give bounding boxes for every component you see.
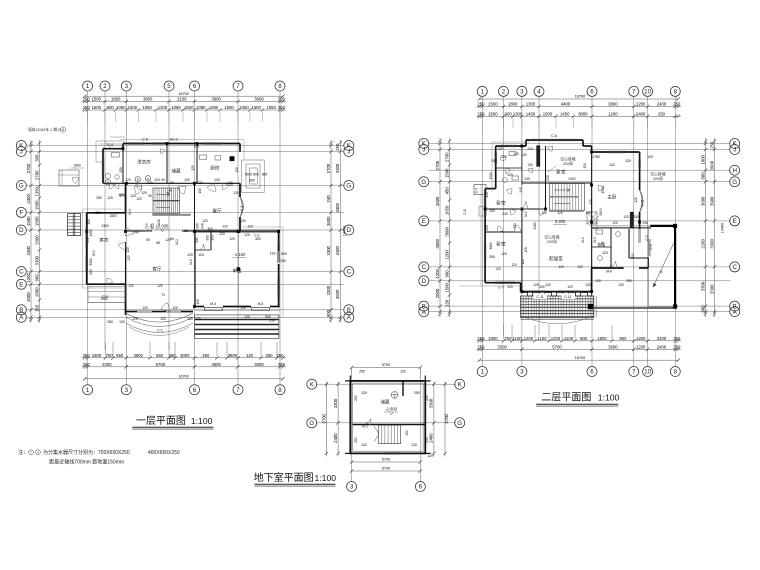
svg-text:120: 120 xyxy=(202,219,208,223)
axis circle B left (plan2) xyxy=(419,301,429,311)
svg-text:120: 120 xyxy=(191,165,195,171)
svg-text:120: 120 xyxy=(541,211,547,215)
svg-text:1780: 1780 xyxy=(592,155,600,159)
axis circle 10 top (plan2) xyxy=(643,86,653,96)
svg-text:C-9: C-9 xyxy=(645,235,649,240)
svg-text:-1.150: -1.150 xyxy=(233,252,246,257)
svg-text:250: 250 xyxy=(96,196,102,200)
interior wall laundry/storage (plan1) xyxy=(103,144,240,184)
svg-text:4400: 4400 xyxy=(561,102,571,107)
svg-text:250: 250 xyxy=(95,211,101,215)
small dim texts scatter (plan2) xyxy=(463,147,653,287)
axis circle 3 top (plan1) xyxy=(121,81,131,91)
dimension chain left inner (plan2) xyxy=(444,138,451,317)
svg-text:3600: 3600 xyxy=(435,196,440,206)
svg-text:120: 120 xyxy=(127,255,131,261)
svg-text:2: 2 xyxy=(502,89,506,96)
svg-text:3300: 3300 xyxy=(102,362,112,367)
room label master bedroom (plan2) xyxy=(607,194,617,201)
svg-text:240: 240 xyxy=(133,231,139,235)
svg-text:3600: 3600 xyxy=(444,227,449,237)
svg-text:120: 120 xyxy=(612,221,618,225)
svg-text:250: 250 xyxy=(269,319,275,323)
svg-text:1500: 1500 xyxy=(184,105,194,110)
svg-text:250: 250 xyxy=(168,353,176,358)
svg-text:1500: 1500 xyxy=(488,111,498,116)
svg-text:120: 120 xyxy=(126,247,130,253)
svg-text:4: 4 xyxy=(537,89,541,96)
svg-text:C-1: C-1 xyxy=(157,329,163,333)
svg-text:1500: 1500 xyxy=(92,105,102,110)
outer wall top band (plan1) xyxy=(103,144,240,184)
axis grid horizontal lines - first floor plan xyxy=(26,146,344,318)
dimension chain top row2 (plan2) xyxy=(476,111,681,118)
svg-text:2000: 2000 xyxy=(26,292,31,302)
garage south wall (plan1) xyxy=(196,306,280,308)
dimension chain bottom row2 (plan1) xyxy=(82,362,286,369)
axis circle K left (plan1) xyxy=(16,141,26,151)
svg-text:D: D xyxy=(422,278,427,285)
svg-text:120: 120 xyxy=(511,263,517,267)
axis circle 8 bottom (plan1) xyxy=(275,385,285,395)
extension ticks below top chain (plan2) xyxy=(482,118,675,128)
stairs (basement) xyxy=(374,425,401,444)
svg-text:240: 240 xyxy=(201,223,205,229)
axis circle C left (plan1) xyxy=(16,267,26,277)
svg-text:7: 7 xyxy=(632,369,636,376)
svg-text:3300: 3300 xyxy=(89,258,93,265)
svg-text:250: 250 xyxy=(631,253,635,259)
dimension 5700 bottom row1 (basement) xyxy=(350,458,422,464)
svg-text:120: 120 xyxy=(567,285,573,289)
svg-text:7: 7 xyxy=(236,83,240,90)
dimension chain top row1 (plan2) xyxy=(476,102,681,109)
svg-text:400X650X250: 400X650X250 xyxy=(148,450,180,456)
svg-text:1050: 1050 xyxy=(142,105,152,110)
fan-coil unit with cross (plan2) xyxy=(587,212,597,224)
axis circle E left (plan1) xyxy=(16,279,26,289)
svg-text:250: 250 xyxy=(202,353,210,358)
svg-text:120: 120 xyxy=(119,320,125,324)
svg-text:-2.600: -2.600 xyxy=(385,407,398,412)
svg-text:1500: 1500 xyxy=(444,283,449,293)
outer wall right block (plan2) xyxy=(592,146,640,229)
svg-text:空心砖墙: 空心砖墙 xyxy=(544,235,559,240)
washroom fixtures (plan1) xyxy=(105,153,119,180)
svg-text:130: 130 xyxy=(521,153,527,157)
svg-text:250: 250 xyxy=(477,102,485,107)
axis circle K left (plan2) xyxy=(419,139,429,149)
svg-text:120: 120 xyxy=(589,199,593,205)
dimension chain left outer (basement) xyxy=(321,381,328,456)
wall x=629 closet (plan2) xyxy=(629,229,648,258)
door leaf M-4 garage (plan1) xyxy=(205,302,270,310)
dimension chain right inner (plan1) xyxy=(326,140,333,323)
svg-text:14400: 14400 xyxy=(721,223,725,234)
svg-text:G: G xyxy=(346,183,351,190)
axis circle 7 top (plan1) xyxy=(233,81,243,91)
svg-text:G: G xyxy=(732,179,737,186)
svg-text:1200: 1200 xyxy=(636,102,646,107)
svg-text:C: C xyxy=(732,264,737,271)
svg-text:120: 120 xyxy=(361,391,367,395)
svg-text:1800: 1800 xyxy=(92,353,102,358)
hollow brick note right (plan2) xyxy=(650,172,665,182)
window washroom west wall (plan1) xyxy=(102,158,104,175)
svg-text:16700: 16700 xyxy=(575,95,586,99)
window west wall guest room (plan1) xyxy=(86,226,88,272)
axis circle 2 top (plan2) xyxy=(499,86,509,96)
axis circle B right (plan1) xyxy=(344,305,354,315)
svg-text:120: 120 xyxy=(235,167,239,173)
svg-text:C-4: C-4 xyxy=(475,188,479,193)
entrance porch arc C-1 (plan1) xyxy=(126,313,194,336)
axis circle G right (plan1) xyxy=(344,181,354,191)
axis circle B left (plan1) xyxy=(16,305,26,315)
svg-text:120: 120 xyxy=(147,181,153,185)
terrace top-left roof lines (plan1) xyxy=(96,137,125,162)
axis circle 8 top (plan1) xyxy=(275,81,285,91)
axis circle G left (plan1) xyxy=(16,181,26,191)
axis circle A right (plan2) xyxy=(730,307,740,317)
svg-text:3800: 3800 xyxy=(133,353,143,358)
svg-text:5700: 5700 xyxy=(321,413,326,423)
svg-text:3300: 3300 xyxy=(326,245,331,255)
svg-text:6: 6 xyxy=(419,484,423,491)
svg-text:H: H xyxy=(732,167,736,174)
svg-text:120: 120 xyxy=(533,283,539,287)
svg-text:250: 250 xyxy=(359,370,365,374)
svg-text:120: 120 xyxy=(495,267,501,271)
svg-text:1: 1 xyxy=(86,387,90,394)
axis circle C right (plan2) xyxy=(730,262,740,272)
svg-text:地下室平面图: 地下室平面图 xyxy=(254,471,314,484)
extension ticks below top chain (plan1) xyxy=(88,112,280,122)
outer wall bottom living (plan1) xyxy=(126,311,194,313)
window C-9 east (plan2) xyxy=(648,239,652,256)
svg-text:2900: 2900 xyxy=(599,208,603,216)
door arcs (plan2) xyxy=(505,168,604,247)
svg-text:150: 150 xyxy=(87,219,91,225)
svg-text:120: 120 xyxy=(545,283,551,287)
svg-text:1650: 1650 xyxy=(444,205,449,215)
total dimension 16700 top (plan1) xyxy=(83,92,285,98)
axis circle A right (plan1) xyxy=(344,312,354,322)
title first floor plan xyxy=(132,415,213,429)
svg-text:150: 150 xyxy=(211,235,215,241)
svg-text:900: 900 xyxy=(505,111,513,116)
svg-text:车库: 车库 xyxy=(232,268,242,275)
svg-text:卧室: 卧室 xyxy=(496,200,506,207)
svg-text:250: 250 xyxy=(642,221,648,225)
axis circle C right (plan1) xyxy=(344,267,354,277)
axis circle 7 top (plan2) xyxy=(629,86,639,96)
axis circle K right (plan2) xyxy=(730,139,740,149)
terrace thick outline right (plan2) xyxy=(592,224,677,308)
svg-text:120: 120 xyxy=(427,454,433,458)
svg-text:3600: 3600 xyxy=(608,344,618,349)
svg-text:1450: 1450 xyxy=(526,111,536,116)
svg-text:120: 120 xyxy=(602,251,608,255)
axis circle 6 bottom (plan2) xyxy=(587,367,597,377)
svg-text:3600: 3600 xyxy=(211,97,221,102)
svg-text:900: 900 xyxy=(326,309,331,317)
svg-text:900: 900 xyxy=(580,336,588,341)
axis circle 1 top (plan1) xyxy=(83,81,93,91)
axis grid lines (basement) xyxy=(316,368,456,482)
total dimension 14400 right (plan2) xyxy=(721,223,725,234)
svg-text:250: 250 xyxy=(354,437,358,443)
outer wall bottom balcony (plan2) xyxy=(521,291,592,293)
extra small dim texts (plan2) xyxy=(485,147,639,289)
svg-text:120: 120 xyxy=(244,233,250,237)
svg-text:M-2: M-2 xyxy=(524,211,528,217)
svg-text:2000: 2000 xyxy=(34,287,39,297)
svg-text:M-2: M-2 xyxy=(128,209,132,215)
svg-text:2: 2 xyxy=(103,83,107,90)
svg-text:800: 800 xyxy=(700,172,705,180)
svg-text:130: 130 xyxy=(527,163,533,167)
room label bedroom upper (plan2) xyxy=(556,169,566,176)
dimension chain right outer (basement) xyxy=(443,381,449,456)
svg-text:洗衣房: 洗衣房 xyxy=(137,159,151,166)
bath fixtures upper-left (plan2) xyxy=(500,152,620,261)
svg-text:F: F xyxy=(19,210,23,217)
svg-text:500: 500 xyxy=(249,179,255,183)
svg-text:1500: 1500 xyxy=(601,186,605,193)
axis circle E right (plan2) xyxy=(730,216,740,226)
bay window C-11 right (plan2) xyxy=(640,190,645,212)
svg-text:250: 250 xyxy=(83,97,91,102)
svg-text:90: 90 xyxy=(170,237,174,241)
axis circle 1 bottom (plan2) xyxy=(477,367,487,377)
stairs (plan2) xyxy=(549,184,584,211)
svg-text:90: 90 xyxy=(146,238,150,242)
dimension chain top row1 (plan1) xyxy=(82,97,286,104)
svg-text:120: 120 xyxy=(187,317,193,321)
svg-text:J: J xyxy=(20,149,23,156)
svg-text:E: E xyxy=(733,218,737,225)
small dimension texts scatter (plan1) xyxy=(70,164,275,325)
axis circle 1 bottom (plan1) xyxy=(83,385,93,395)
svg-text:M-3: M-3 xyxy=(593,237,597,243)
svg-text:250: 250 xyxy=(425,437,429,443)
svg-text:6: 6 xyxy=(590,89,594,96)
outer wall left main (plan2) xyxy=(484,189,486,283)
svg-text:3: 3 xyxy=(350,484,354,491)
svg-text:250: 250 xyxy=(626,279,632,283)
windows (plan2) xyxy=(484,134,640,292)
svg-text:5700: 5700 xyxy=(552,344,562,349)
svg-text:J: J xyxy=(422,147,425,154)
svg-text:240: 240 xyxy=(195,237,199,243)
svg-text:G: G xyxy=(19,183,24,190)
svg-text:1:100: 1:100 xyxy=(598,393,620,403)
svg-text:2700: 2700 xyxy=(34,170,39,180)
axis grid vertical lines - first floor plan xyxy=(88,91,280,385)
axis circle 4 top (plan2) xyxy=(534,86,544,96)
axis circle K right (basement) xyxy=(455,379,465,389)
corner wing stubs (basement) xyxy=(345,376,431,454)
axis circle 2 top (plan1) xyxy=(100,81,110,91)
svg-text:2400: 2400 xyxy=(568,177,575,181)
svg-text:C: C xyxy=(347,269,352,276)
svg-text:1450: 1450 xyxy=(560,111,570,116)
axis circle D left (plan2) xyxy=(419,276,429,286)
dimension chain right inner (basement) xyxy=(429,381,436,456)
svg-text:900: 900 xyxy=(196,223,200,229)
column blobs at axis-wall junctions (plan1) xyxy=(85,142,280,308)
svg-text:M-2: M-2 xyxy=(581,237,585,243)
svg-text:120: 120 xyxy=(196,299,200,305)
svg-text:J: J xyxy=(733,147,736,154)
svg-text:240: 240 xyxy=(502,212,508,216)
svg-text:120: 120 xyxy=(107,196,113,200)
axis circle 8 bottom (plan2) xyxy=(670,367,680,377)
garage centre line and column (plan1) xyxy=(237,230,240,306)
svg-text:120: 120 xyxy=(195,317,201,321)
axis circle J left (plan2) xyxy=(419,145,429,155)
svg-text:3300: 3300 xyxy=(34,255,39,265)
extension ticks above bottom chain (plan1) xyxy=(106,342,278,356)
svg-text:240: 240 xyxy=(524,177,530,181)
svg-text:120: 120 xyxy=(160,317,166,321)
svg-text:120: 120 xyxy=(118,193,124,197)
svg-text:250: 250 xyxy=(477,344,485,349)
svg-text:B: B xyxy=(19,307,23,314)
entrance steps right - garage apron (plan1) xyxy=(195,315,279,339)
svg-text:C-2: C-2 xyxy=(86,237,90,242)
axis grid vertical lines (plan2) xyxy=(482,97,675,367)
svg-text:储藏: 储藏 xyxy=(171,168,181,175)
svg-text:C-4: C-4 xyxy=(102,295,108,299)
svg-text:750: 750 xyxy=(106,353,114,358)
svg-text:1050: 1050 xyxy=(116,105,126,110)
dimension chain right outer (plan2) xyxy=(709,138,716,317)
dimension 5700 top (basement) xyxy=(350,363,422,378)
extra small dim texts (plan1) xyxy=(87,178,239,288)
svg-text:1300: 1300 xyxy=(526,102,536,107)
dimension chain bottom row1 (plan1) xyxy=(82,353,286,360)
svg-text:900: 900 xyxy=(34,274,39,282)
svg-text:120: 120 xyxy=(187,253,193,257)
svg-text:C-7: C-7 xyxy=(498,286,504,290)
svg-text:120: 120 xyxy=(270,251,276,255)
flue dark block (plan2) xyxy=(537,146,634,229)
svg-text:250: 250 xyxy=(673,336,681,341)
svg-text:550: 550 xyxy=(156,353,164,358)
level mark 3.300 (plan2) xyxy=(553,219,567,225)
svg-text:10: 10 xyxy=(644,369,651,376)
svg-text:150: 150 xyxy=(34,304,39,312)
svg-text:240: 240 xyxy=(519,187,523,193)
svg-text:2700: 2700 xyxy=(444,152,449,162)
svg-text:1800: 1800 xyxy=(508,102,518,107)
svg-text:1100: 1100 xyxy=(537,336,547,341)
axis circle A left (plan2) xyxy=(419,307,429,317)
svg-text:1: 1 xyxy=(86,83,90,90)
svg-text:5700: 5700 xyxy=(444,413,449,423)
svg-text:C: C xyxy=(19,269,24,276)
svg-text:二: 二 xyxy=(393,392,396,395)
svg-text:120: 120 xyxy=(198,253,204,257)
dimension chain bottom row1 (plan2) xyxy=(476,336,681,343)
svg-text:120: 120 xyxy=(219,232,225,236)
svg-text:250: 250 xyxy=(673,344,681,349)
room label dining (plan1) xyxy=(212,208,222,215)
annex C-4 left (plan2) xyxy=(474,185,486,217)
svg-text:T4: T4 xyxy=(161,293,165,297)
svg-text:1300: 1300 xyxy=(513,111,523,116)
svg-text:M-2: M-2 xyxy=(175,239,179,245)
svg-text:注：: 注： xyxy=(18,449,28,456)
svg-text:250: 250 xyxy=(265,353,273,358)
svg-text:1300: 1300 xyxy=(101,224,109,228)
axis circle B right (plan2) xyxy=(730,301,740,311)
dimension chain left outer (plan2) xyxy=(435,138,442,317)
svg-text:120: 120 xyxy=(585,283,591,287)
svg-text:250: 250 xyxy=(477,111,485,116)
svg-text:M-4: M-4 xyxy=(210,302,216,306)
svg-text:3000: 3000 xyxy=(180,353,190,358)
outer wall top (plan2) xyxy=(496,140,592,146)
svg-text:900: 900 xyxy=(89,269,93,275)
svg-text:M-6: M-6 xyxy=(606,270,612,274)
svg-text:900: 900 xyxy=(513,223,517,229)
svg-text:250: 250 xyxy=(280,259,286,263)
svg-text:200厚: 200厚 xyxy=(547,239,557,244)
svg-text:120: 120 xyxy=(485,192,489,198)
door M-2 (basement) xyxy=(362,419,371,429)
room label bedroom left (plan2) xyxy=(496,200,506,207)
svg-text:C: C xyxy=(422,264,427,271)
svg-text:90: 90 xyxy=(148,194,152,198)
riser line (basement) xyxy=(402,381,404,396)
svg-text:2700: 2700 xyxy=(26,163,31,173)
dimension chain right outer (plan1) xyxy=(335,140,342,323)
svg-text:120: 120 xyxy=(244,315,250,319)
svg-text:C-11: C-11 xyxy=(537,295,544,299)
svg-text:300: 300 xyxy=(262,173,268,177)
svg-text:8: 8 xyxy=(278,83,282,90)
svg-text:起居室: 起居室 xyxy=(549,255,563,262)
svg-text:200厚: 200厚 xyxy=(653,176,663,181)
svg-text:7: 7 xyxy=(632,89,636,96)
room label bedroom lower-left (plan2) xyxy=(496,241,506,248)
svg-text:120: 120 xyxy=(246,353,254,358)
svg-text:120: 120 xyxy=(172,306,178,310)
axis circle 7 bottom (plan2) xyxy=(629,367,639,377)
svg-text:1050: 1050 xyxy=(266,105,276,110)
room label laundry (plan1) xyxy=(137,159,151,166)
svg-text:250: 250 xyxy=(278,97,286,102)
svg-text:120: 120 xyxy=(497,147,503,151)
svg-text:7900: 7900 xyxy=(244,173,252,177)
svg-text:14400: 14400 xyxy=(343,226,347,237)
axis grid horizontal lines (plan2) xyxy=(429,144,731,312)
terrace bottom parapet (plan2) xyxy=(592,307,677,309)
svg-text:8: 8 xyxy=(278,387,282,394)
axis circle K right (plan1) xyxy=(344,141,354,151)
terrace diagonal leader with arrow (plan2) xyxy=(653,243,674,287)
svg-text:120: 120 xyxy=(507,173,513,177)
svg-text:6: 6 xyxy=(193,83,197,90)
svg-text:C-5: C-5 xyxy=(142,138,148,142)
svg-text:150: 150 xyxy=(444,299,449,307)
svg-text:120: 120 xyxy=(136,197,142,201)
svg-text:4400: 4400 xyxy=(335,202,340,212)
svg-text:C-11: C-11 xyxy=(641,199,645,206)
